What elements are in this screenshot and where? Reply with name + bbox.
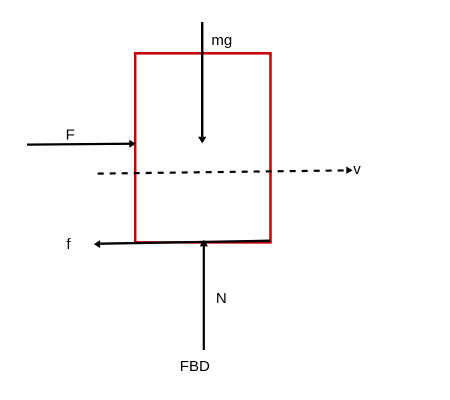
svg-text:FBD: FBD bbox=[180, 358, 210, 375]
svg-text:v: v bbox=[353, 161, 361, 178]
svg-text:f: f bbox=[66, 236, 71, 253]
svg-text:mg: mg bbox=[211, 32, 232, 49]
svg-text:F: F bbox=[66, 127, 75, 144]
svg-text:N: N bbox=[216, 290, 227, 307]
